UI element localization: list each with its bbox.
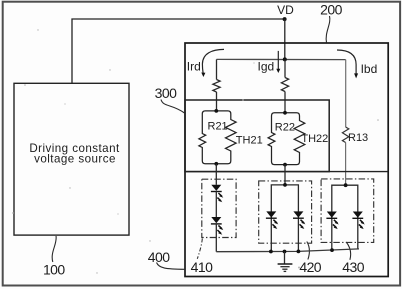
leader 300 <box>161 100 185 114</box>
leader 410 <box>197 239 202 259</box>
leader 420 <box>307 242 310 260</box>
node dot loop2 bottom <box>283 163 287 167</box>
label Ird <box>187 59 201 73</box>
label 100 <box>43 261 65 277</box>
dashed group box 410 <box>202 179 236 237</box>
wire from source to VD node <box>72 19 285 83</box>
node dot loop1 top <box>214 109 218 113</box>
svg-text:Igd: Igd <box>258 60 275 74</box>
label Ibd <box>361 62 378 76</box>
svg-text:100: 100 <box>43 261 65 277</box>
junction dot bus 420 left <box>269 250 273 254</box>
wire mid branch lower <box>284 92 286 113</box>
svg-text:430: 430 <box>342 259 364 275</box>
junction dot VD <box>283 17 287 21</box>
parallel loop R22/TH22 <box>268 113 305 165</box>
wire into 410 <box>215 164 217 185</box>
wire right branch upper <box>345 60 347 127</box>
LED D2 of 410 <box>211 217 223 235</box>
loop wires 430 <box>332 185 358 250</box>
label TH22 <box>301 133 328 145</box>
node dot 430 top <box>344 183 348 187</box>
wire left branch lower <box>216 92 218 111</box>
junction dot bus ground <box>283 250 287 254</box>
label TH21 <box>236 134 263 146</box>
label 430 <box>342 259 364 275</box>
svg-text:410: 410 <box>191 259 213 275</box>
LED left of 420 <box>266 211 278 229</box>
bottom bus wire <box>216 249 359 252</box>
ground <box>278 252 293 272</box>
wire 410 to bottom bus <box>215 224 217 252</box>
LED right of 430 <box>352 212 364 230</box>
svg-text:TH21: TH21 <box>236 134 263 146</box>
svg-text:R13: R13 <box>348 132 368 144</box>
top bus wire <box>217 58 346 60</box>
node dot 420 top <box>283 183 287 187</box>
LED left of 430 <box>326 212 338 230</box>
LED right of 420 <box>293 211 305 229</box>
current arrow Ibd <box>337 50 358 78</box>
label 300 <box>155 85 177 101</box>
junction dot bus/VD <box>283 57 287 61</box>
svg-text:R21: R21 <box>208 121 228 133</box>
label 400 <box>148 249 170 265</box>
label 420 <box>299 259 321 275</box>
label 200 <box>320 1 342 17</box>
svg-text:VD: VD <box>277 3 294 17</box>
svg-text:voltage source: voltage source <box>34 152 116 165</box>
resistor on mid branch <box>281 78 288 92</box>
leader 100 <box>52 236 56 262</box>
label R21 <box>208 121 228 133</box>
LED D1 of 410 <box>211 185 223 203</box>
svg-text:Ird: Ird <box>187 59 201 73</box>
label Igd <box>258 60 275 74</box>
wire mid branch upper <box>284 59 286 77</box>
leader 430 <box>346 242 350 260</box>
label R13 <box>348 132 368 144</box>
svg-text:400: 400 <box>148 249 170 265</box>
parallel loop R21/TH21 <box>199 111 236 164</box>
wire left branch upper <box>216 59 218 79</box>
divider line between 300 and 400 sections <box>185 171 388 173</box>
resistor R13 <box>342 127 348 143</box>
wire between LEDs of 410 <box>215 192 217 218</box>
resistor on left branch <box>213 80 220 93</box>
scan speckles <box>12 29 379 273</box>
current arrow Ird <box>201 49 224 77</box>
svg-text:R22: R22 <box>275 121 295 133</box>
block 200 box <box>185 43 388 277</box>
label 410 <box>191 259 213 275</box>
loop wires 420 <box>271 185 298 252</box>
wire into 420 <box>284 165 286 185</box>
node VD label <box>277 3 294 17</box>
driving source text <box>29 142 120 166</box>
junction dot bus 430 left <box>330 248 334 252</box>
svg-text:420: 420 <box>299 259 321 275</box>
dashed group box 420 <box>259 181 312 243</box>
node dot loop2 top <box>283 111 287 115</box>
svg-text:300: 300 <box>155 85 177 101</box>
label R22 <box>275 121 295 133</box>
current arrow Igd <box>276 51 280 73</box>
node dot loop1 bottom <box>214 162 218 166</box>
svg-text:Ibd: Ibd <box>361 62 378 76</box>
svg-text:TH22: TH22 <box>301 133 328 145</box>
junction dot bus 420 right <box>297 250 301 254</box>
svg-text:200: 200 <box>320 1 342 17</box>
box 300 <box>185 100 329 172</box>
driving source box 100 <box>14 83 129 235</box>
leader 200 <box>326 16 330 43</box>
wire right branch lower <box>345 143 347 186</box>
dashed group box 430 <box>321 179 374 243</box>
leader 400 <box>157 263 186 270</box>
wire VD down into block <box>284 19 286 59</box>
